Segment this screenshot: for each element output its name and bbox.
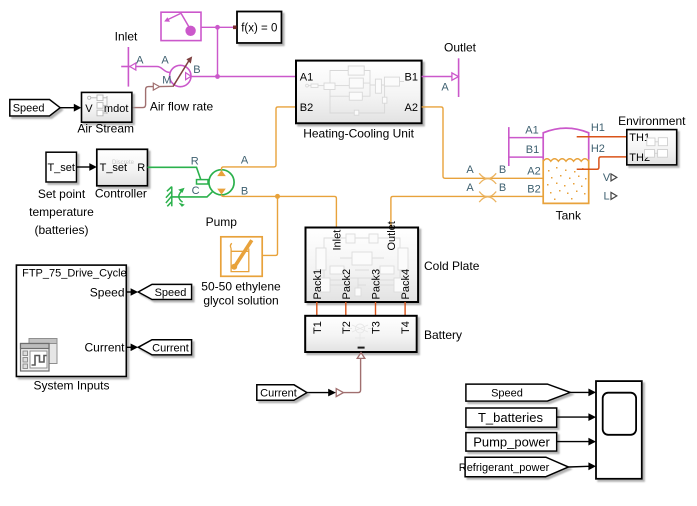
wire ground to pump C bbox=[172, 191, 213, 197]
svg-text:A1: A1 bbox=[525, 124, 538, 136]
Cold Plate block bbox=[306, 221, 419, 302]
wire HCU B1 to Outlet bbox=[422, 76, 452, 78]
svg-text:T2: T2 bbox=[341, 321, 353, 334]
svg-text:Cold Plate: Cold Plate bbox=[424, 259, 480, 273]
svg-text:Pack4: Pack4 bbox=[400, 269, 412, 300]
wire Speed tag to Air Stream bbox=[60, 107, 74, 109]
rotational ground (hatched wall + rotation arc) bbox=[166, 187, 183, 207]
svg-text:M: M bbox=[162, 74, 171, 86]
sensor block (moist air measurement, magenta box with needle icon) bbox=[161, 12, 201, 40]
svg-text:A: A bbox=[136, 55, 144, 67]
Speed goto tag bbox=[138, 284, 191, 299]
svg-text:Outlet: Outlet bbox=[444, 41, 477, 55]
wire pump A to HCU B2 (orange) bbox=[222, 107, 297, 170]
wire HCU A2 to tank A2 (orange) bbox=[422, 107, 544, 178]
wire Controller R to Pump R bbox=[148, 167, 201, 179]
svg-text:Air Stream: Air Stream bbox=[77, 121, 134, 135]
T_batteries tag bbox=[466, 408, 557, 427]
wire M arrow to fan bbox=[160, 85, 174, 87]
svg-text:50-50 ethylene: 50-50 ethylene bbox=[201, 280, 281, 294]
svg-text:Tank: Tank bbox=[556, 209, 582, 223]
wire Current out to Current goto bbox=[126, 346, 131, 348]
wire cold plate outlet to tank B2 (orange) bbox=[391, 196, 543, 227]
Current goto tag bbox=[138, 340, 191, 355]
physical signal wire mdot to M bbox=[132, 87, 153, 108]
wire sensor to f(x)=0 with junction bbox=[201, 26, 233, 28]
svg-text:Environment: Environment bbox=[618, 114, 686, 128]
svg-text:B: B bbox=[499, 182, 506, 194]
svg-text:V: V bbox=[603, 172, 611, 184]
Pump_power tag bbox=[466, 433, 557, 452]
wire tank H1 to Environment TH1 (thermal) bbox=[577, 136, 627, 138]
wire fan B to Heating-Cooling Unit A1 bbox=[191, 76, 296, 78]
svg-text:A1: A1 bbox=[300, 72, 313, 84]
svg-text:B: B bbox=[241, 185, 248, 197]
pump circle bbox=[209, 170, 234, 195]
wire pump B to cold plate inlet (orange) bbox=[222, 195, 337, 228]
svg-text:T_batteries: T_batteries bbox=[478, 410, 544, 425]
svg-text:T1: T1 bbox=[312, 321, 324, 334]
svg-text:FTP_75_Drive_Cycle: FTP_75_Drive_Cycle bbox=[22, 268, 127, 280]
svg-text:A: A bbox=[241, 155, 249, 167]
svg-text:H2: H2 bbox=[591, 143, 605, 155]
svg-text:Pump_power: Pump_power bbox=[473, 434, 550, 449]
Air Stream block bbox=[82, 92, 132, 122]
local restriction symbol on B2 wire bbox=[479, 192, 496, 203]
Current source tag (From) bbox=[257, 385, 307, 401]
solver block f(x)=0 bbox=[237, 12, 282, 44]
svg-text:A2: A2 bbox=[527, 166, 540, 178]
node junction pump B bbox=[275, 194, 280, 199]
wire Speed tag to scope bbox=[570, 391, 589, 393]
wire vent bar to tank B1 bbox=[509, 156, 543, 158]
Tank block bbox=[543, 128, 589, 203]
svg-text:A: A bbox=[441, 81, 449, 93]
svg-text:Pack1: Pack1 bbox=[312, 269, 324, 300]
svg-text:Speed: Speed bbox=[13, 103, 45, 115]
svg-text:mdot: mdot bbox=[104, 103, 128, 115]
svg-text:Inlet: Inlet bbox=[115, 30, 138, 44]
physical signal wire battery I down to converter bbox=[344, 358, 361, 392]
svg-text:T3: T3 bbox=[371, 321, 383, 334]
wire Current tag to converter bbox=[307, 392, 329, 394]
svg-text:A: A bbox=[466, 182, 474, 194]
Inlet boundary symbol bbox=[121, 47, 136, 87]
node junction on A1 wire bbox=[215, 74, 220, 79]
svg-text:B2: B2 bbox=[300, 102, 313, 114]
svg-text:Speed: Speed bbox=[491, 388, 523, 400]
svg-text:T_set: T_set bbox=[47, 162, 75, 174]
svg-text:B1: B1 bbox=[405, 72, 418, 84]
svg-text:Heating-Cooling Unit: Heating-Cooling Unit bbox=[303, 127, 414, 141]
svg-text:System Inputs: System Inputs bbox=[33, 379, 109, 393]
svg-text:A2: A2 bbox=[405, 102, 418, 114]
svg-text:Inlet: Inlet bbox=[332, 230, 344, 251]
System Inputs block bbox=[16, 265, 126, 376]
wire Refrigerant_power to scope bbox=[569, 465, 589, 468]
svg-text:(batteries): (batteries) bbox=[34, 223, 88, 237]
svg-text:L: L bbox=[603, 191, 609, 203]
Environment block bbox=[627, 130, 677, 165]
svg-text:Air flow rate: Air flow rate bbox=[150, 99, 214, 113]
Outlet boundary symbol bbox=[452, 58, 459, 97]
svg-text:Current: Current bbox=[152, 342, 189, 354]
svg-text:glycol solution: glycol solution bbox=[203, 294, 278, 308]
wire junction down to A1 line bbox=[217, 27, 219, 76]
wire T_set to Controller bbox=[77, 166, 91, 168]
wire T_batteries to scope bbox=[557, 416, 589, 418]
svg-text:C: C bbox=[192, 185, 200, 197]
svg-text:V: V bbox=[85, 103, 93, 115]
svg-text:B: B bbox=[499, 164, 506, 176]
wire junction down to glycol block bbox=[262, 196, 277, 255]
T_set constant block bbox=[46, 152, 77, 182]
svg-text:Outlet: Outlet bbox=[386, 221, 398, 250]
svg-text:Pack2: Pack2 bbox=[341, 269, 353, 300]
svg-text:R: R bbox=[191, 156, 199, 168]
M port open arrow bbox=[153, 83, 159, 90]
Speed scope tag (From) bbox=[466, 384, 570, 401]
port square on solver bbox=[233, 26, 237, 30]
Battery block bbox=[305, 316, 417, 352]
svg-text:R: R bbox=[137, 162, 145, 174]
wire Speed out to Speed goto bbox=[126, 291, 131, 293]
svg-text:Current: Current bbox=[260, 388, 297, 400]
svg-text:temperature: temperature bbox=[29, 205, 94, 219]
50-50 ethylene glycol block (orange) bbox=[221, 237, 262, 276]
wire tank H2 to Environment TH2 (thermal) bbox=[577, 157, 627, 169]
svg-text:Pump: Pump bbox=[206, 215, 238, 229]
local restriction symbol on A2 wire bbox=[479, 173, 496, 184]
wire Pump_power to scope bbox=[557, 441, 589, 443]
svg-text:Refrigerant_power: Refrigerant_power bbox=[459, 462, 550, 474]
svg-text:Current: Current bbox=[84, 340, 125, 354]
battery I port open arrow bbox=[357, 353, 365, 359]
Heating-Cooling Unit block bbox=[296, 61, 422, 124]
svg-text:B: B bbox=[193, 64, 200, 76]
svg-text:A: A bbox=[466, 164, 474, 176]
svg-text:A: A bbox=[161, 55, 169, 67]
svg-text:B1: B1 bbox=[526, 144, 539, 156]
Refrigerant_power tag bbox=[459, 457, 569, 477]
svg-text:Speed: Speed bbox=[155, 287, 187, 299]
svg-text:f(x) = 0: f(x) = 0 bbox=[241, 23, 277, 35]
svg-text:Controller: Controller bbox=[95, 187, 147, 201]
svg-text:Pack3: Pack3 bbox=[371, 269, 383, 300]
wire Inlet to fan A bbox=[136, 67, 170, 73]
wire vent bar to tank A1 bbox=[509, 137, 543, 139]
fan (air flow rate source) circle bbox=[170, 56, 193, 86]
svg-text:Speed: Speed bbox=[90, 285, 125, 299]
svg-text:Battery: Battery bbox=[424, 328, 462, 342]
node junction top bbox=[215, 25, 220, 30]
Scope block bbox=[596, 381, 642, 479]
svg-text:Set point: Set point bbox=[38, 187, 86, 201]
wires cold plate packs to battery (thermal) bbox=[316, 302, 318, 316]
svg-text:T4: T4 bbox=[400, 321, 412, 334]
svg-text:B2: B2 bbox=[527, 184, 540, 196]
svg-text:H1: H1 bbox=[591, 122, 605, 134]
tank vent bar bbox=[508, 127, 510, 166]
Controller block bbox=[97, 149, 148, 186]
svg-text:Discrete: Discrete bbox=[112, 160, 135, 166]
pump R port connector rect bbox=[197, 180, 209, 184]
Speed source tag (From) bbox=[10, 100, 60, 117]
converter open arrow bbox=[336, 389, 343, 397]
